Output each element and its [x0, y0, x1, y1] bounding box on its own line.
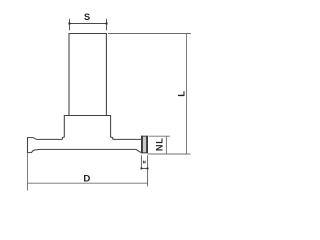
- insert body fill: [141, 136, 148, 153]
- arm top edge left segment: [37, 138, 63, 140]
- collar left outline: [62, 116, 69, 140]
- insert width small dimension left extension: [140, 155, 142, 169]
- dimension L top extension line: [108, 33, 191, 35]
- left hub flange outline: [28, 138, 41, 153]
- dimension NL line vertical: [165, 136, 167, 154]
- insert right edge: [146, 136, 148, 153]
- insert top edge: [141, 135, 148, 137]
- arm top edge right segment: [113, 138, 142, 140]
- insert width tiny label: [143, 161, 146, 164]
- dimension S line: [70, 23, 107, 25]
- insert width dim dot left: [141, 168, 143, 170]
- arm bottom edge: [40, 149, 141, 152]
- insert width small dimension line: [141, 167, 147, 169]
- collar top shoulder line: [64, 115, 110, 117]
- insert width small dimension right extension: [147, 155, 149, 186]
- dimension S arrow dot left: [69, 23, 71, 25]
- dimension S arrow dot right: [106, 23, 108, 25]
- dimension NL top extension line: [149, 135, 170, 137]
- insert bottom edge: [141, 152, 148, 154]
- insert left edge: [141, 136, 143, 153]
- insert width dim dot right: [147, 168, 149, 170]
- collar right outline: [106, 116, 112, 140]
- svg-text:S: S: [84, 12, 90, 22]
- shared bottom extension line for L and NL: [148, 153, 191, 155]
- svg-text:D: D: [83, 173, 90, 184]
- dimension S extension tick left: [69, 19, 71, 31]
- dimension D left extension line: [27, 153, 29, 190]
- dimension D line: [28, 182, 148, 184]
- dimension L line vertical: [186, 34, 188, 155]
- shank outline: [69, 34, 106, 116]
- dimension S extension tick right: [106, 19, 108, 31]
- svg-text:L: L: [176, 91, 187, 97]
- svg-text:NL: NL: [155, 137, 165, 151]
